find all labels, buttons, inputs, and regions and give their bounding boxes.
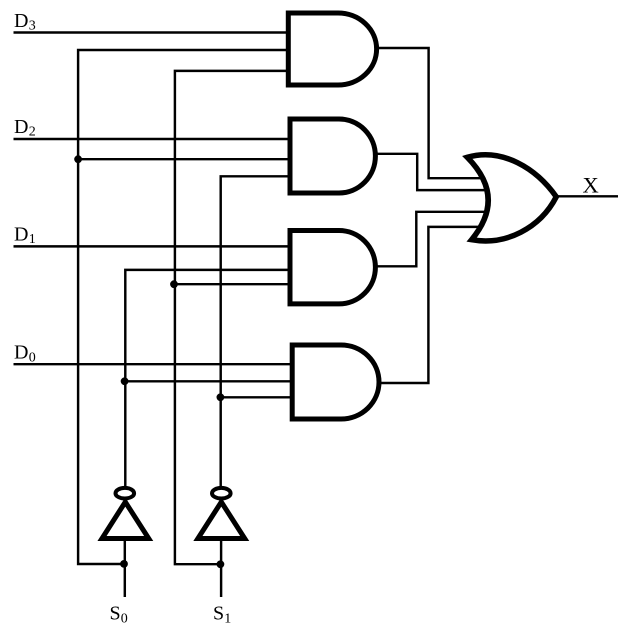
svg-text:1: 1: [224, 611, 231, 626]
and-gate U2: [290, 119, 375, 193]
wire S0 vertical bus: [78, 50, 292, 564]
svg-text:D: D: [14, 116, 28, 138]
junction dot S0 to U2 branch: [74, 155, 82, 163]
wire D0 input: [14, 363, 293, 365]
inverter U6 triangle: [198, 502, 245, 539]
wire S0-inverted bus from inverter U5: [125, 270, 292, 486]
junction dot S1-inverted to U4 branch: [217, 393, 225, 401]
svg-text:0: 0: [29, 350, 36, 365]
wire S1 below inverter U6: [220, 541, 222, 598]
svg-text:2: 2: [29, 125, 36, 140]
inverter U5 bubble: [116, 488, 135, 499]
label D3: [14, 10, 36, 34]
label D2: [14, 116, 36, 140]
wire S0 below inverter U5: [124, 541, 126, 598]
wire D3 input: [14, 31, 293, 33]
svg-text:D: D: [14, 10, 28, 32]
inverter U6 bubble: [212, 488, 231, 499]
svg-text:D: D: [14, 224, 28, 246]
wire S1 vertical bus: [175, 71, 292, 564]
and-gate U1: [288, 13, 376, 85]
svg-text:1: 1: [29, 232, 36, 247]
wire X output: [556, 195, 618, 197]
svg-text:0: 0: [121, 611, 128, 626]
wire S0 branch to gate U2: [78, 158, 292, 160]
svg-text:3: 3: [29, 19, 36, 34]
and-gate U3: [290, 231, 375, 304]
svg-text:D: D: [14, 342, 28, 364]
wire gate U4 output to OR gate U7: [379, 227, 486, 383]
junction dot S1 to U3 branch: [170, 280, 178, 288]
wire S1-inverted bus from inverter U6: [221, 176, 292, 486]
svg-text:X: X: [583, 173, 599, 198]
and-gate U4: [292, 345, 379, 419]
junction dot S0 at inverter U5 input: [120, 560, 128, 568]
wire D1 input: [14, 245, 293, 247]
label S0: [110, 602, 128, 626]
wire D2 input: [14, 138, 293, 140]
wire gate U2 output to OR gate U7: [376, 154, 492, 190]
wire S1-inverted branch to gate U4: [221, 396, 292, 398]
inverter U5 triangle: [102, 502, 149, 539]
svg-text:S: S: [213, 602, 224, 624]
svg-text:S: S: [110, 602, 121, 624]
or-gate U7: [467, 155, 556, 241]
label D0: [14, 342, 36, 366]
wire S0-inverted branch to gate U4: [125, 380, 292, 382]
wire S1 branch to gate U3: [175, 283, 292, 285]
junction dot S0-inverted to U4 branch: [121, 377, 129, 385]
label S1: [213, 602, 231, 626]
wire gate U3 output to OR gate U7: [376, 212, 492, 266]
junction dot S1 at inverter U6 input: [217, 560, 225, 568]
label D1: [14, 224, 36, 248]
wire gate U1 output to OR gate U7: [377, 48, 488, 178]
